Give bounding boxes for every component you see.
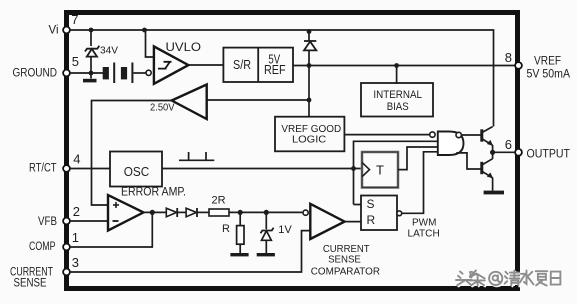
svg-text:T: T <box>376 163 384 178</box>
flip-flop T <box>362 152 398 188</box>
wire VFB to error amp - <box>70 220 108 222</box>
diode D4 <box>186 208 196 217</box>
svg-text:6: 6 <box>505 137 512 152</box>
latch output bubble <box>397 211 402 216</box>
wire battery to UVLO bubble <box>133 72 145 74</box>
svg-text:Vi: Vi <box>49 25 59 37</box>
gate output bubble <box>456 132 461 137</box>
node junction error amp output <box>150 210 155 215</box>
wire 2R to comparator bubble <box>229 211 302 213</box>
ground (Q2 emitter) <box>484 191 504 195</box>
node junction Vi/zener <box>89 28 94 33</box>
svg-text:R: R <box>367 213 376 227</box>
ground (zener) <box>257 253 275 256</box>
wire 2.50V input from VREF tap <box>207 99 309 101</box>
wire comparator out to R input <box>345 221 361 223</box>
transistor Q1 (top, NPN) <box>480 129 483 141</box>
svg-text:34V: 34V <box>100 45 118 57</box>
svg-text:SENSE: SENSE <box>14 278 47 290</box>
wire clock riser to gate and S input <box>354 141 438 204</box>
wire VREF to VREF GOOD LOGIC <box>308 66 310 117</box>
gate input bubble (VREF good) <box>430 132 435 137</box>
diode D2 (VREF to Vi) <box>308 31 310 66</box>
wire OSC output <box>162 168 361 170</box>
resistor 2R <box>209 209 229 216</box>
svg-text:ERROR AMP.: ERROR AMP. <box>121 187 186 199</box>
svg-text:2: 2 <box>73 204 80 219</box>
svg-text:R: R <box>222 223 230 235</box>
wire internal bias drop <box>396 66 398 85</box>
svg-text:S: S <box>367 197 375 211</box>
node junction GND <box>89 71 94 76</box>
node junction output <box>490 150 495 155</box>
svg-text:PWM: PWM <box>412 217 436 228</box>
node junction VREF/diode branch <box>307 63 312 68</box>
svg-text:LATCH: LATCH <box>408 228 440 239</box>
svg-text:5V 50mA: 5V 50mA <box>527 69 571 81</box>
pin 2 (VFB) <box>63 218 70 225</box>
svg-text:3: 3 <box>72 255 79 270</box>
svg-text:5: 5 <box>72 54 79 69</box>
node junction diode/Vi rail <box>307 29 312 34</box>
pin 8 (VREF) <box>515 62 522 69</box>
diode D3 <box>166 208 176 217</box>
svg-text:VREF: VREF <box>534 56 561 68</box>
wire Vi rail from pin7 to Q1 collector <box>70 30 494 127</box>
svg-text:2R: 2R <box>212 195 226 207</box>
svg-text:1: 1 <box>72 230 79 245</box>
node junction R tap <box>238 210 243 215</box>
svg-text:BIAS: BIAS <box>387 101 409 113</box>
svg-text:4: 4 <box>73 152 80 167</box>
wire latch Q to gate <box>402 152 438 214</box>
wire T output to gate <box>398 147 438 170</box>
svg-text:7: 7 <box>71 12 78 27</box>
wire UVLO out to S/R <box>188 64 223 66</box>
pin 4 (RT/CT) <box>63 165 70 172</box>
op-amp ERROR AMP <box>108 195 144 231</box>
svg-text:OUTPUT: OUTPUT <box>527 149 571 161</box>
svg-text:S/R: S/R <box>233 58 251 72</box>
wire ground from pin 5 <box>70 72 103 74</box>
pin 6 (OUTPUT) <box>515 149 522 156</box>
svg-text:REF: REF <box>264 63 286 77</box>
pin 7 (Vi) <box>63 27 70 34</box>
svg-text:GROUND: GROUND <box>13 68 58 80</box>
comparator inverting input bubble <box>303 210 308 215</box>
svg-text:INTERNAL: INTERNAL <box>373 89 422 101</box>
op-amp 2.50V reference buffer <box>172 85 207 120</box>
latch PWM (S R) <box>361 196 397 231</box>
block INTERNAL BIAS <box>361 83 433 117</box>
svg-text:LOGIC: LOGIC <box>292 134 327 146</box>
resistor R <box>239 212 241 225</box>
wire gate bottom to Q2 base <box>456 153 480 169</box>
wire VREF GOOD out to gate bubble <box>344 134 429 136</box>
pin 3 (CURRENT SENSE) <box>63 269 70 276</box>
wire 2.50V out to error amp + <box>92 101 172 206</box>
gate NOR (output logic) <box>438 132 464 156</box>
svg-text:RT/CT: RT/CT <box>29 163 57 175</box>
svg-text:2.50V: 2.50V <box>150 102 175 114</box>
svg-text:8: 8 <box>505 50 512 65</box>
block S/R + 5V REF <box>223 48 293 82</box>
block OSC <box>110 152 162 187</box>
zener diode D5 1V <box>265 212 267 229</box>
IC body outline U1 <box>67 13 518 289</box>
ground (R) <box>230 253 248 256</box>
node junction 2.50V tap <box>307 98 312 103</box>
wire COMP to error amp output <box>70 212 152 247</box>
wire error amp out row <box>143 211 166 213</box>
UVLO inverting input bubble <box>146 70 151 75</box>
watermark toutiao @qingshuixiari <box>457 272 561 287</box>
wire VREF line to pin 8 <box>293 65 515 67</box>
svg-text:VFB: VFB <box>38 216 57 228</box>
wire to pin 6 <box>493 151 515 153</box>
clock waveform symbol <box>179 152 214 160</box>
svg-text:OSC: OSC <box>124 164 150 179</box>
block VREF GOOD LOGIC <box>275 117 344 152</box>
wire gate out to Q1 base <box>461 134 480 136</box>
wire pin3 current sense to comparator <box>70 231 310 272</box>
pin 5 (GROUND) <box>63 70 70 77</box>
svg-text:COMPARATOR: COMPARATOR <box>311 266 381 278</box>
transistor Q2 (bottom, NPN) <box>480 162 483 174</box>
node junction Vi/UVLO <box>142 28 147 33</box>
node junction zener tap <box>264 210 269 215</box>
svg-text:UVLO: UVLO <box>166 42 202 54</box>
wire UVLO input drop <box>146 30 154 57</box>
battery reference stack (UVLO thresholds) <box>103 67 109 79</box>
ground symbol (pin5) <box>90 73 92 79</box>
op-amp CURRENT SENSE COMPARATOR <box>310 204 344 239</box>
zener diode D1 34V <box>90 30 92 46</box>
svg-text:SENSE: SENSE <box>328 254 361 266</box>
svg-text:COMP: COMP <box>29 241 56 253</box>
svg-text:1V: 1V <box>278 224 292 236</box>
wire pin4 to OSC <box>70 168 110 170</box>
node junction OSC/S/gate <box>351 166 356 171</box>
pin 1 (COMP) <box>63 244 70 251</box>
op-amp UVLO comparator <box>154 46 189 83</box>
node junction VREF/internal bias <box>394 63 399 68</box>
